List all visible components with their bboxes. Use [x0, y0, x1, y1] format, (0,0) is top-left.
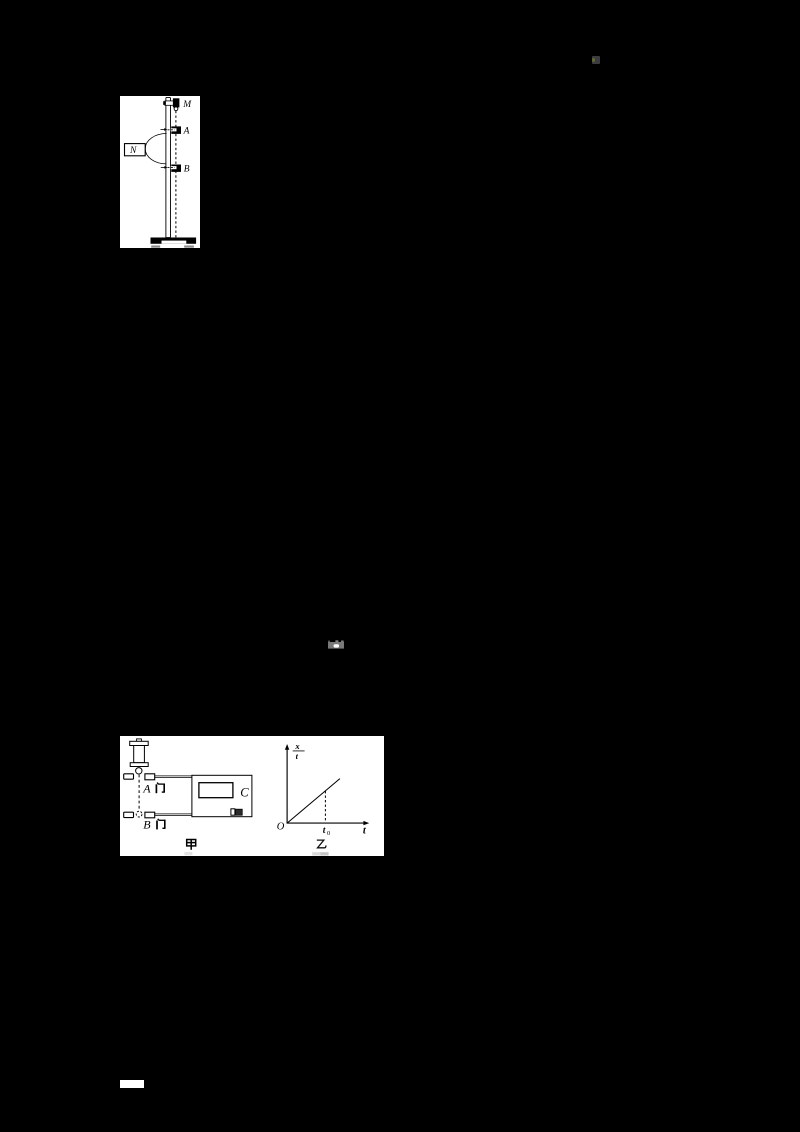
button white [230, 809, 234, 815]
gate A wires [154, 775, 191, 777]
gray mark under jia [184, 852, 192, 855]
figure 1: free-fall stand apparatus [120, 96, 200, 248]
spool body [133, 745, 144, 762]
base shadow right [184, 245, 194, 247]
gate B wires [154, 813, 191, 815]
glyph men (door) after B [157, 819, 165, 830]
photogate A block [171, 126, 181, 133]
dashed drop at t0 [324, 791, 326, 823]
brace curve to N [145, 133, 166, 163]
svg-text:x: x [294, 741, 300, 751]
dashed fall line [175, 111, 177, 237]
svg-text:B: B [143, 817, 151, 831]
glyph men (door) after A [156, 782, 164, 793]
spool bottom flange [130, 762, 148, 766]
white bar bottom left [120, 1080, 144, 1088]
gate B right receiver [144, 812, 154, 818]
svg-text:B: B [184, 164, 190, 174]
svg-text:C: C [240, 785, 249, 799]
spool top flange [129, 741, 148, 745]
steel ball under M [174, 107, 178, 111]
button dark [235, 809, 242, 815]
electromagnet M block [173, 98, 179, 107]
glyph yi (label 乙) [316, 840, 325, 848]
N box [124, 143, 145, 155]
photogate A slot [171, 128, 177, 131]
graph x-axis [286, 822, 366, 824]
small gray artifact mid page [328, 640, 345, 649]
svg-text:t: t [322, 826, 325, 836]
svg-text:0: 0 [327, 830, 330, 837]
gate A right receiver [144, 774, 154, 780]
svg-text:A: A [142, 781, 151, 795]
svg-text:M: M [182, 100, 192, 110]
tiny broken-image icon top right [592, 56, 600, 64]
gate B left emitter [123, 812, 133, 817]
timer box C [191, 775, 251, 816]
clamp screw [163, 101, 166, 105]
figure 2: photogate timer experiment + graph [120, 736, 385, 856]
photogate A beam dash [168, 129, 175, 131]
photogate B slot [171, 166, 177, 169]
base notch [161, 240, 186, 243]
plotted line [287, 778, 340, 823]
dashed fall line [138, 774, 140, 810]
clamp arm [165, 101, 175, 105]
base shadow left [151, 245, 160, 247]
rod (vertical stand pole) [166, 97, 171, 237]
svg-text:N: N [129, 146, 137, 156]
svg-text:A: A [183, 126, 190, 136]
photogate B block [171, 164, 181, 171]
ball below spool [135, 767, 141, 773]
svg-text:t: t [295, 751, 298, 761]
timer display [198, 782, 232, 797]
photogate B beam dash [168, 166, 175, 168]
gray mark under yi [312, 852, 320, 855]
base plate [150, 237, 196, 243]
arrow into A [160, 128, 165, 130]
gate B ball (dashed circle) [136, 811, 142, 817]
graph y-axis [286, 746, 288, 823]
svg-text:O: O [276, 821, 284, 832]
spool cap [136, 739, 141, 742]
glyph jia (label 甲) [186, 839, 195, 849]
svg-text:t: t [362, 825, 366, 836]
gate A left emitter [123, 774, 133, 779]
arrow into B [161, 166, 166, 168]
